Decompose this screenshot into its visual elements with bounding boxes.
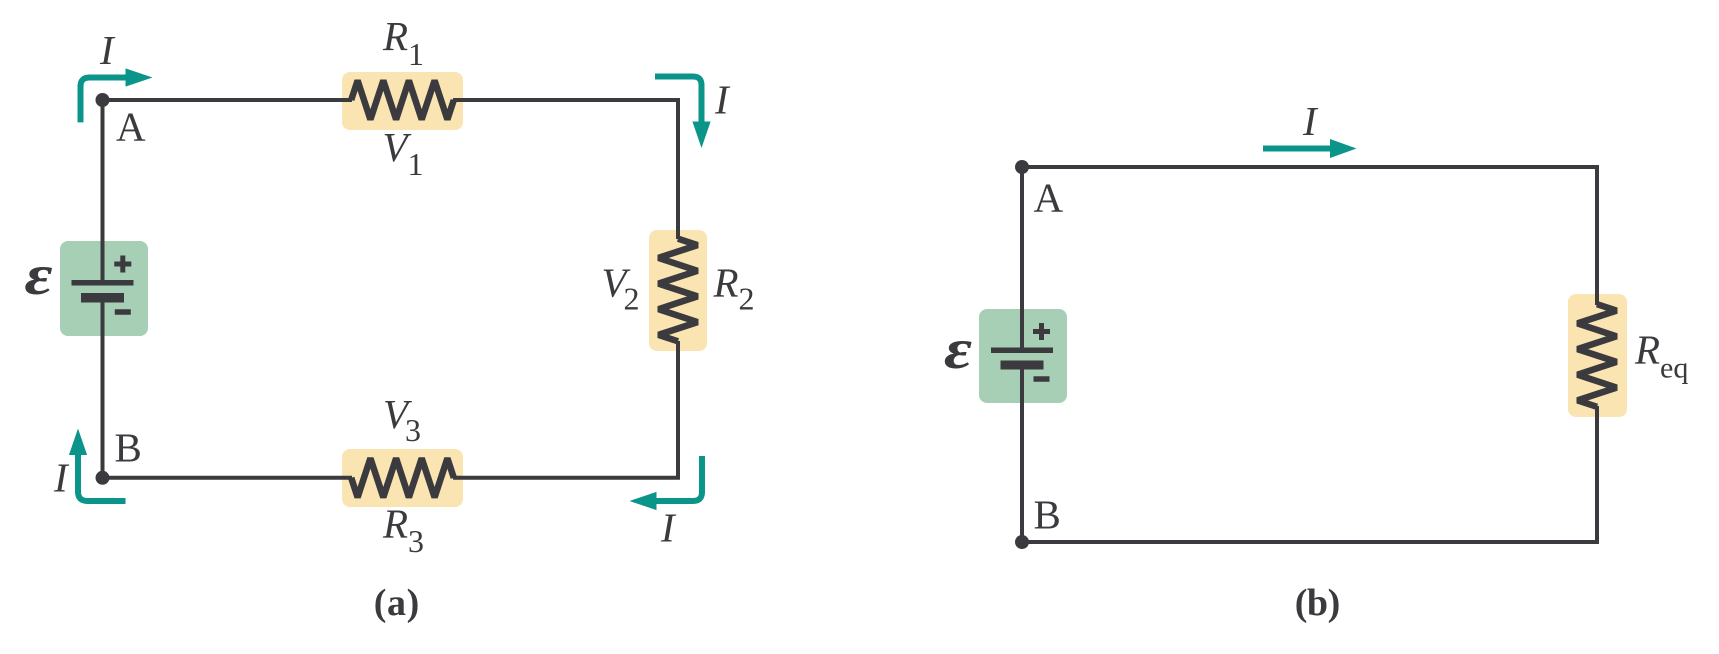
current arrow bottom-left xyxy=(78,455,126,501)
wire left below battery xyxy=(101,297,105,478)
svg-text:B: B xyxy=(1034,492,1061,538)
resistor R1 zigzag xyxy=(351,81,454,120)
wire left above battery xyxy=(1020,167,1024,350)
resistor Req zigzag xyxy=(1578,304,1617,407)
resistor Req highlight box xyxy=(1568,294,1627,417)
battery negative plate (short thick) xyxy=(1001,361,1044,370)
svg-text:(a): (a) xyxy=(374,582,420,624)
node B dot xyxy=(1015,535,1029,549)
current arrow top-right xyxy=(655,77,702,123)
current arrow bottom-right xyxy=(656,456,702,501)
resistor R1 highlight box xyxy=(342,72,463,130)
battery minus sign xyxy=(115,309,131,315)
battery minus sign xyxy=(1034,376,1050,382)
wire right below Req to bottom corner to B xyxy=(1022,406,1597,542)
wire right below R2 to bottom corner xyxy=(453,341,678,478)
battery negative plate (short thick) xyxy=(81,293,124,303)
svg-text:A: A xyxy=(1034,175,1064,221)
svg-text:(b): (b) xyxy=(1295,582,1341,624)
current arrow top xyxy=(1263,146,1333,152)
node B dot xyxy=(96,471,110,485)
svg-text:ε: ε xyxy=(25,243,53,306)
battery positive plate (long) xyxy=(991,348,1053,354)
svg-text:B: B xyxy=(115,425,142,471)
wire top-right R1 to corner down to R2 xyxy=(453,100,678,239)
resistor R3 highlight box xyxy=(342,449,463,507)
current arrow top-left xyxy=(81,78,128,123)
battery highlight box xyxy=(60,241,148,336)
svg-text:ε: ε xyxy=(944,317,972,380)
svg-text:I: I xyxy=(99,27,116,73)
battery positive plate (long) xyxy=(72,280,134,286)
resistor R2 highlight box xyxy=(649,230,707,351)
resistor R3 zigzag xyxy=(351,458,454,497)
svg-text:I: I xyxy=(714,77,731,123)
wire top to right corner down to Req xyxy=(1022,167,1597,305)
node A dot xyxy=(1015,160,1029,174)
wire left above battery xyxy=(101,100,105,283)
svg-text:I: I xyxy=(53,455,70,501)
svg-text:A: A xyxy=(116,104,146,150)
battery highlight box xyxy=(979,309,1067,403)
wire left below battery xyxy=(1020,364,1024,542)
wire bottom-left B to R3 xyxy=(103,476,353,480)
battery plus sign xyxy=(114,256,131,273)
battery plus sign xyxy=(1033,323,1050,340)
node A dot xyxy=(96,93,110,107)
svg-text:I: I xyxy=(1302,98,1319,144)
wire top-left A to R1 xyxy=(103,98,353,102)
svg-text:I: I xyxy=(660,505,677,551)
resistor R2 zigzag xyxy=(659,239,698,342)
